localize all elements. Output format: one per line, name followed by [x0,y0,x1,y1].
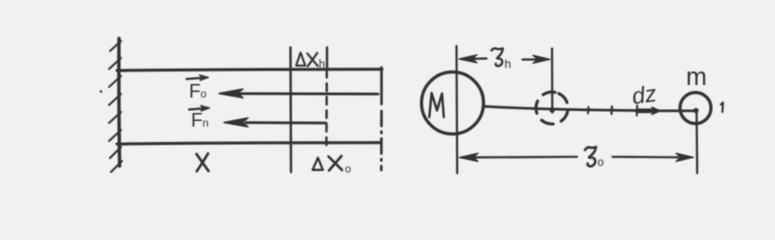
z_o glyph [585,147,596,166]
force arrow F0 head [219,89,243,98]
svg-text:o: o [345,164,351,176]
label X hand-drawn [197,154,209,171]
paper mottling [0,0,775,190]
label delta of delta-Xh [296,53,305,66]
main horizontal line M to m [483,106,694,111]
z_h glyph [492,48,503,66]
label X of delta-X0 [329,157,343,171]
dim z_h right wire [523,58,542,60]
delta-x_h right tick [326,48,328,70]
dashed circle (intermediate position) [531,87,574,130]
vertical from m center [695,112,698,173]
svg-text:n: n [203,118,209,130]
dashed line x+dx_h [325,70,328,150]
dim z_o left wire [474,156,577,159]
force arrow Fn head [224,118,248,127]
dz left tick [636,106,638,116]
small tick on line 2 [610,107,613,115]
svg-text:m: m [686,63,707,91]
small tick on line 1 [587,107,590,114]
right end dash-dot line [380,111,383,170]
bar bottom line [117,143,381,144]
dz thick bar [637,109,656,114]
label X of delta-Xh [307,54,318,67]
svg-text:F: F [189,82,201,103]
dim z_o right wire [613,156,679,159]
dim z_o right arrowhead [676,153,694,161]
force arrow Fn wire [246,121,326,124]
wall hatching [109,41,122,172]
svg-text:o: o [598,157,604,169]
vector bar over Fn [189,108,205,109]
dim z_h left arrowhead [459,55,477,63]
svg-text:F: F [191,111,203,132]
vector bar over F0 [187,78,204,79]
dim z_h left wire [473,57,487,59]
node x divider line [289,48,292,173]
dz right arrowhead [652,107,662,115]
tick through dashed circle [551,49,553,113]
label delta of delta-X0 [313,158,323,170]
wall line [117,39,121,167]
junction blob [549,107,555,113]
svg-text:h: h [319,59,325,71]
stray speck left [100,90,103,93]
right end solid segment [380,68,383,105]
letter M hand-drawn [429,93,444,117]
svg-text:dz: dz [630,80,658,109]
svg-text:o: o [201,89,207,101]
svg-text:h: h [505,57,512,71]
center dot of m [693,108,698,113]
bar top line [117,69,382,70]
mark 1 right of m [721,103,723,113]
dim z_o left arrowhead [460,153,479,161]
mass M circle [422,72,484,134]
vertical axis through M [455,46,458,173]
force arrow F0 wire [240,92,378,95]
mass m circle [680,93,711,124]
dim z_h right arrowhead [533,55,550,63]
